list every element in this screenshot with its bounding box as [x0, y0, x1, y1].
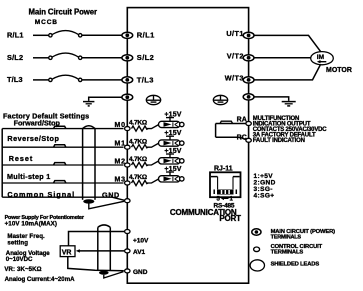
wire W to motor	[254, 65, 320, 80]
terminal M3	[125, 181, 130, 185]
svg-text:4.7KΩ: 4.7KΩ	[129, 174, 147, 181]
svg-text:Reset: Reset	[9, 154, 34, 163]
wire M2 row	[2, 164, 123, 166]
input label Reset	[9, 154, 34, 163]
svg-text:0~10VDC: 0~10VDC	[6, 256, 33, 263]
opto-coupler U2	[159, 140, 185, 146]
relay contact RA wire	[216, 123, 246, 125]
relay wire vertical	[215, 124, 217, 138]
chassis earth screw E1	[146, 95, 160, 104]
svg-text:VR: VR	[62, 250, 72, 257]
note: multifunction output	[253, 116, 327, 144]
potentiometer wiper arrow	[76, 249, 80, 252]
title: Main Circuit Power	[29, 8, 97, 17]
switch S2 Reverse/Stop	[54, 145, 66, 147]
ground (input side)	[83, 102, 94, 106]
opto-coupler U3	[159, 158, 185, 164]
terminal label V/T2	[227, 51, 244, 60]
wire U to motor	[254, 35, 321, 52]
svg-text:GND: GND	[102, 190, 120, 199]
pin order label 5-1	[217, 197, 234, 203]
svg-text:4:SG+: 4:SG+	[254, 193, 275, 200]
svg-text:R/L1: R/L1	[7, 31, 24, 40]
terminal S/L2	[122, 55, 133, 61]
svg-text:Forward/Stop: Forward/Stop	[14, 119, 61, 128]
connector label RJ-11	[214, 165, 233, 172]
resistor R3 4.7K label	[129, 156, 147, 163]
port label COMMUNICATION	[170, 208, 237, 217]
wire M0 row	[2, 128, 123, 130]
legend text: main circuit terminals	[271, 229, 336, 241]
terminal GND (analog)	[125, 269, 130, 273]
shielded cable (analog)	[98, 225, 111, 275]
power label +15V (M3)	[164, 166, 181, 176]
wire T phase right	[82, 79, 123, 81]
terminal label GND (analog)	[133, 269, 148, 276]
svg-text:4.7KΩ: 4.7KΩ	[129, 120, 147, 127]
chassis earth screw E2	[213, 95, 227, 104]
switch S4 Multi-step 1	[54, 181, 66, 183]
port label PORT	[219, 214, 241, 223]
svg-text:Analog Current:4~20mA: Analog Current:4~20mA	[5, 276, 76, 283]
svg-text:4.7KΩ: 4.7KΩ	[129, 156, 147, 163]
relay contact bridge	[220, 121, 233, 123]
note: analog current	[5, 276, 76, 283]
wire R phase right	[82, 34, 123, 36]
connector J1 RJ-11 jack	[210, 172, 241, 197]
svg-text:M0: M0	[114, 122, 125, 129]
port label RS-485	[214, 202, 235, 209]
terminal label R/L1	[137, 31, 155, 40]
svg-text:S/L2: S/L2	[7, 53, 23, 62]
resistor R1	[132, 126, 149, 131]
terminal +10V	[125, 230, 130, 234]
terminal label RA	[237, 117, 247, 124]
svg-text:FAULT INDICATION: FAULT INDICATION	[253, 138, 305, 144]
svg-text:Multi-step 1: Multi-step 1	[7, 172, 51, 181]
terminal R/L1	[122, 32, 133, 38]
wire common signal row	[2, 197, 126, 201]
relay contact RC wire	[216, 137, 247, 140]
svg-text:RA: RA	[237, 117, 247, 124]
legend text: control circuit terminals	[271, 244, 323, 255]
terminal M1	[125, 145, 130, 149]
terminal RC	[246, 138, 251, 142]
wire VR bottom to GND	[68, 257, 124, 271]
svg-text:VR: 3K~5KΩ: VR: 3K~5KΩ	[4, 266, 41, 273]
svg-text:Reverse/Stop: Reverse/Stop	[7, 134, 59, 143]
resistor R4	[132, 180, 149, 185]
node label R/L1 (source)	[7, 31, 24, 40]
svg-text:GND: GND	[133, 269, 148, 276]
motor M1	[311, 52, 334, 65]
note: power supply for potentiometer	[5, 215, 85, 228]
wire T phase left	[33, 79, 49, 81]
wire R3 to opto U3	[147, 161, 159, 165]
resistor R4 4.7K label	[129, 174, 147, 181]
terminal label T/L3	[137, 75, 154, 84]
resistor R2 4.7K label	[129, 138, 147, 145]
wire R2 to opto U2	[147, 143, 159, 147]
terminal GND (digital)	[125, 199, 130, 203]
svg-text:+10V: +10V	[133, 238, 149, 245]
svg-text:PORT: PORT	[219, 214, 241, 223]
svg-text:IM: IM	[317, 54, 324, 61]
switch S1 Forward/Stop	[54, 126, 66, 128]
svg-text:MOTOR: MOTOR	[326, 67, 352, 74]
breaker pole S	[49, 53, 82, 59]
terminal label +10V	[133, 238, 149, 245]
shield drain wire (analog)	[104, 272, 124, 278]
switch S3 Reset	[54, 163, 66, 165]
motor label	[326, 67, 352, 74]
wire R4 to opto U4	[147, 179, 159, 183]
svg-text:W/T3: W/T3	[225, 74, 244, 83]
power label +15V (M1)	[164, 130, 181, 140]
terminal label U/T1	[226, 29, 243, 38]
terminal AV1	[125, 249, 130, 253]
legend symbol: main circuit terminal	[252, 229, 261, 235]
svg-text:4.7KΩ: 4.7KΩ	[129, 138, 147, 145]
note: VR value	[4, 266, 41, 273]
output earth terminal	[243, 94, 254, 100]
wire S phase right	[82, 57, 123, 59]
svg-text:MCCB: MCCB	[35, 19, 58, 26]
wire R phase left	[33, 34, 49, 36]
svg-text:TERMINALS: TERMINALS	[271, 249, 304, 255]
ground (output side)	[282, 102, 296, 106]
svg-text:Main Circuit Power: Main Circuit Power	[29, 8, 97, 17]
note: analog voltage	[6, 250, 51, 263]
terminal label M2	[114, 158, 125, 165]
breaker label MCCB	[35, 19, 58, 26]
terminal label S/L2	[137, 53, 154, 62]
svg-text:T/L3: T/L3	[7, 75, 23, 84]
svg-text:RC: RC	[237, 134, 247, 141]
terminal V/T2	[243, 55, 254, 61]
input label Forward/Stop	[14, 119, 61, 128]
power label +15V (M0)	[164, 112, 181, 122]
terminal RA	[246, 122, 251, 126]
terminal M0	[125, 127, 130, 131]
terminal label AV1	[133, 249, 146, 256]
terminal T/L3	[122, 77, 133, 83]
breaker pole T	[49, 75, 82, 81]
legend text: shielded leads	[271, 261, 320, 267]
svg-text:TERMINALS: TERMINALS	[271, 235, 302, 241]
svg-text:SHIELDED LEADS: SHIELDED LEADS	[271, 261, 320, 267]
svg-text:T/L3: T/L3	[137, 75, 154, 84]
resistor R3	[132, 162, 149, 167]
pin list 1:+5V 2:GND 3:SG- 4:SG+	[254, 173, 276, 200]
node label T/L3 (source)	[7, 75, 23, 84]
svg-text:S/L2: S/L2	[137, 53, 154, 62]
terminal M2	[125, 163, 130, 167]
wire R1 to opto U1	[147, 125, 159, 129]
terminal label GND (digital)	[102, 190, 120, 199]
terminal label M0	[114, 122, 125, 129]
drive enclosure box	[127, 8, 248, 284]
legend symbol: control circuit terminal	[254, 247, 260, 252]
note: master freq setting	[7, 233, 45, 246]
terminal U/T1	[243, 32, 254, 38]
svg-text:M1: M1	[114, 141, 125, 148]
svg-text:AV1: AV1	[133, 249, 146, 256]
wire VR wiper to AV1	[80, 250, 125, 252]
wire M3 row	[2, 182, 123, 184]
terminal label RC	[237, 134, 247, 141]
svg-text:RJ-11: RJ-11	[214, 165, 233, 172]
terminal label M1	[114, 141, 125, 148]
resistor R1 4.7K label	[129, 120, 147, 127]
svg-text:V/T2: V/T2	[227, 51, 244, 60]
terminal label W/T3	[225, 74, 244, 83]
wire M1 row	[2, 146, 123, 148]
power label +15V (M2)	[164, 148, 181, 158]
breaker pole R	[49, 31, 82, 37]
wire S phase left	[33, 57, 49, 59]
input label Multi-step 1	[7, 172, 51, 181]
common rail wire	[1, 129, 3, 198]
svg-text:U/T1: U/T1	[226, 29, 243, 38]
wire V to motor	[254, 57, 311, 59]
input label Common Signal	[7, 190, 75, 199]
resistor R2	[132, 145, 149, 150]
node label S/L2 (source)	[7, 53, 23, 62]
terminal W/T3	[243, 77, 254, 83]
svg-text:+10V 10mA(MAX): +10V 10mA(MAX)	[5, 220, 57, 227]
shielded cable (digital inputs)	[83, 126, 95, 204]
potentiometer VR box	[60, 246, 75, 257]
opto-coupler U4	[159, 176, 185, 182]
wire input earth	[89, 97, 122, 101]
input earth terminal	[122, 94, 133, 100]
wire output earth	[254, 97, 289, 101]
shield drain wire (digital)	[89, 201, 124, 209]
terminal label M3	[114, 176, 125, 183]
wire VR top to +10V	[69, 232, 125, 246]
svg-text:M2: M2	[114, 158, 125, 165]
opto-coupler U1	[159, 121, 185, 127]
legend symbol: shielded leads	[250, 260, 264, 271]
input label Reverse/Stop	[7, 134, 59, 143]
svg-text:M3: M3	[114, 176, 125, 183]
note: factory default settings	[3, 111, 89, 120]
svg-text:setting: setting	[7, 239, 28, 246]
svg-text:R/L1: R/L1	[137, 31, 155, 40]
